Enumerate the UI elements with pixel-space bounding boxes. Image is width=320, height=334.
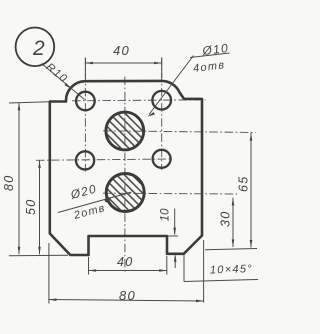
svg-text:50: 50 xyxy=(24,198,38,215)
svg-text:40: 40 xyxy=(117,255,134,269)
svg-text:10×45°: 10×45° xyxy=(210,263,253,276)
svg-text:30: 30 xyxy=(219,210,233,227)
svg-text:40: 40 xyxy=(113,43,130,58)
svg-text:65: 65 xyxy=(237,175,251,192)
svg-text:10: 10 xyxy=(160,208,172,222)
svg-text:Ø10: Ø10 xyxy=(201,41,230,58)
svg-text:4отв: 4отв xyxy=(192,59,226,75)
svg-text:R10: R10 xyxy=(44,61,70,85)
svg-text:2отв: 2отв xyxy=(72,202,107,222)
svg-text:2: 2 xyxy=(32,37,45,60)
svg-text:80: 80 xyxy=(119,288,136,303)
svg-text:Ø20: Ø20 xyxy=(68,181,98,202)
svg-text:80: 80 xyxy=(2,174,16,191)
